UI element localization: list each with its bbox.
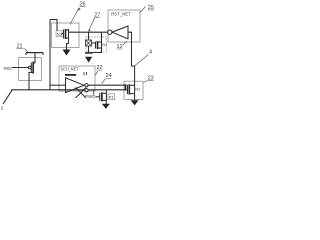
svg-text:RST_NET: RST_NET — [111, 12, 131, 18]
svg-text:PMOS: PMOS — [4, 66, 12, 71]
svg-text:N2: N2 — [135, 87, 140, 92]
svg-text:2: 2 — [1, 105, 4, 110]
svg-text:N1: N1 — [102, 42, 107, 47]
svg-text:SCH_NET: SCH_NET — [61, 67, 79, 72]
svg-text:PWD: PWD — [85, 94, 95, 99]
svg-text:P1: P1 — [109, 94, 114, 99]
svg-text:N3: N3 — [57, 31, 62, 36]
svg-text:4: 4 — [149, 50, 152, 56]
